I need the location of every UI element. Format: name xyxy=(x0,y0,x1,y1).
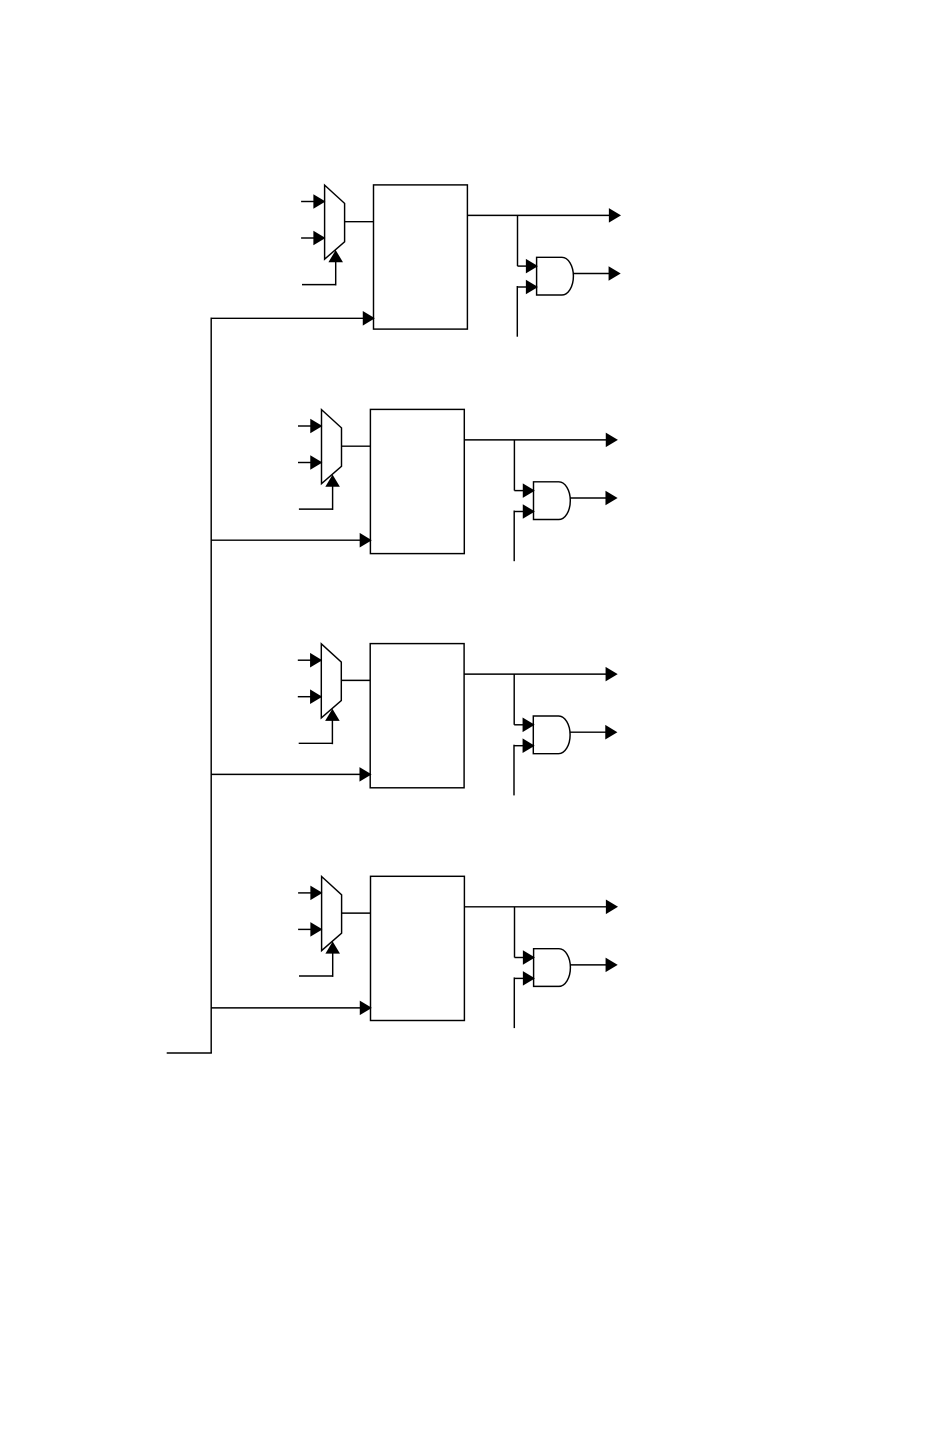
wire: branch from B3 output down to AND gate G3 input 1 xyxy=(514,674,533,731)
register block B4 xyxy=(371,876,465,1020)
register block B2 xyxy=(370,409,464,553)
wire: register block B4 output xyxy=(464,901,616,913)
wire: mux M1 data input A xyxy=(301,196,324,208)
wire: AND gate G4 input 2 stub xyxy=(514,972,533,1028)
wire: register block B1 output xyxy=(467,209,619,221)
AND gate G2 xyxy=(534,482,571,520)
wire: mux M1 output to register block B1 xyxy=(345,221,374,223)
stage 3 xyxy=(211,644,617,796)
AND gate G3 xyxy=(533,716,570,754)
wire: mux M3 data input A xyxy=(298,654,321,666)
AND gate G4 xyxy=(534,949,571,987)
wire: branch from B1 output down to AND gate G1 input 1 xyxy=(518,215,537,272)
wire: AND gate G4 output xyxy=(570,959,616,971)
wire: vertical bus line on the left feeding all four register blocks xyxy=(210,318,212,1053)
wire: bus bottom-left stub xyxy=(167,1052,212,1054)
wire: AND gate G1 input 2 stub xyxy=(517,281,536,337)
wire: bus tap into register block B3 xyxy=(211,768,371,780)
wire: mux M3 select input xyxy=(299,710,339,744)
wire: mux M3 data input B xyxy=(298,691,321,703)
stage 2 xyxy=(211,409,617,561)
wire: mux M2 select input xyxy=(299,476,339,510)
wire: mux M1 select input xyxy=(302,252,342,286)
AND gate G1 xyxy=(537,257,574,295)
register block B1 xyxy=(374,185,468,329)
mux M1 (2-to-1 multiplexer) xyxy=(325,185,345,259)
stage 1 xyxy=(211,185,620,337)
wire: AND gate G3 input 2 stub xyxy=(514,740,533,796)
wire: mux M3 output to register block B3 xyxy=(341,679,370,681)
mux M2 (2-to-1 multiplexer) xyxy=(322,410,342,484)
mux M3 (2-to-1 multiplexer) xyxy=(321,644,341,718)
wire: mux M4 select input xyxy=(299,943,339,977)
wire: mux M4 output to register block B4 xyxy=(342,912,371,914)
register block B3 xyxy=(370,644,464,788)
wire: mux M4 data input B xyxy=(298,923,321,935)
wire: register block B2 output xyxy=(464,434,616,446)
stage 4 xyxy=(211,876,617,1028)
wire: mux M2 output to register block B2 xyxy=(342,445,371,447)
wire: register block B3 output xyxy=(464,668,616,680)
wire: bus tap into register block B1 xyxy=(211,312,374,324)
wire: bus tap into register block B4 xyxy=(211,1002,371,1014)
wire: mux M4 data input A xyxy=(298,887,321,899)
wire: mux M1 data input B xyxy=(301,232,324,244)
wire: mux M2 data input B xyxy=(298,457,321,469)
wire: branch from B4 output down to AND gate G4 input 1 xyxy=(515,907,534,964)
wire: AND gate G2 input 2 stub xyxy=(514,506,533,562)
wire: AND gate G1 output xyxy=(573,268,619,280)
wire: mux M2 data input A xyxy=(298,420,321,432)
wire: bus tap into register block B2 xyxy=(211,534,371,546)
wire: branch from B2 output down to AND gate G2 input 1 xyxy=(514,440,533,497)
wire: AND gate G3 output xyxy=(570,726,616,738)
mux M4 (2-to-1 multiplexer) xyxy=(322,877,342,951)
wire: AND gate G2 output xyxy=(570,492,616,504)
